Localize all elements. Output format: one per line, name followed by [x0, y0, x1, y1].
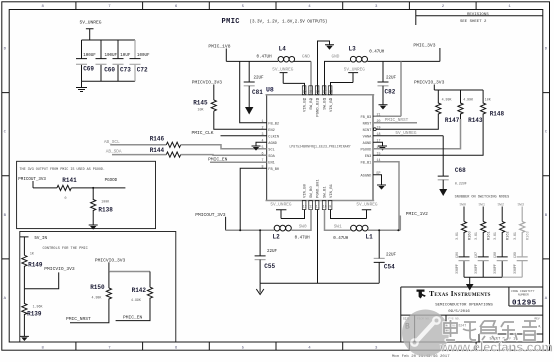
svg-text:SW3: SW3	[518, 204, 524, 208]
ground (R138)	[89, 213, 98, 230]
svg-text:2: 2	[442, 5, 445, 9]
op-amp U8 PMIC body	[266, 87, 375, 201]
resistor R138 100K	[91, 187, 114, 214]
ground arrow (power rail, open)	[256, 283, 264, 294]
svg-text:L1: L1	[366, 233, 374, 240]
svg-text:21: 21	[377, 112, 381, 116]
svg-text:26: 26	[316, 90, 320, 94]
svg-text:25: 25	[309, 90, 313, 94]
TI logo	[417, 290, 426, 299]
svg-text:THE 3V3 OUTPUT FROM PMIC IS US: THE 3V3 OUTPUT FROM PMIC IS USED AS PGOO…	[20, 168, 105, 172]
svg-text:C54: C54	[384, 264, 395, 271]
svg-text:4.99K: 4.99K	[92, 296, 102, 300]
svg-text:9: 9	[329, 205, 331, 209]
svg-text:5V_UNREG: 5V_UNREG	[344, 68, 365, 73]
svg-text:100UF: 100UF	[105, 54, 118, 58]
svg-text:PMIC_NRST: PMIC_NRST	[66, 316, 91, 322]
net PGOOD / wire R141 to PGOOD	[71, 179, 125, 188]
svg-text:EN2: EN2	[268, 129, 274, 133]
svg-text:3.01: 3.01	[493, 232, 497, 240]
svg-text:5V_UNREG: 5V_UNREG	[270, 202, 291, 207]
svg-text:L3: L3	[349, 46, 357, 53]
svg-text:100K: 100K	[101, 200, 109, 204]
wire cap bank bottom rail	[82, 80, 136, 82]
net PMICVIO_3V3 (pullup pair)	[95, 257, 126, 271]
title block code identity	[511, 290, 537, 308]
svg-text:SEMICONDUCTOR OPERATIONS: SEMICONDUCTOR OPERATIONS	[435, 303, 493, 307]
svg-text:PMICVIO_3V3: PMICVIO_3V3	[414, 80, 445, 86]
power flag 5V_UNREG (VIN_B0)	[270, 202, 291, 218]
capacitor C69 100UF	[76, 40, 96, 81]
wire C54 to ground rail	[378, 262, 380, 283]
svg-text:0: 0	[65, 196, 67, 200]
svg-text:4.99K: 4.99K	[463, 98, 473, 102]
wire R146 to SCL pin 5	[181, 145, 267, 149]
wire 5V_UNREG to VIN_B2	[283, 83, 304, 94]
power flag 5V_UNREG (VIN_B1)	[356, 202, 377, 218]
svg-text:330PF: 330PF	[513, 264, 517, 274]
svg-text:SW1: SW1	[479, 204, 485, 208]
U8 bottom pin stubs	[302, 201, 332, 210]
svg-text:www.elecfans.com: www.elecfans.com	[439, 340, 553, 355]
svg-text:12: 12	[309, 205, 313, 209]
resistor R147 4.99K	[436, 90, 460, 124]
svg-text:CONTROLS FOR THE PMIC: CONTROLS FOR THE PMIC	[43, 247, 88, 251]
svg-text:PMICVIO_3V3: PMICVIO_3V3	[192, 80, 223, 86]
svg-text:22UF: 22UF	[254, 77, 265, 81]
svg-text:22UF: 22UF	[386, 254, 397, 258]
U8 top pin numbers inner row	[303, 98, 333, 101]
net label GND (left)	[302, 55, 310, 60]
svg-text:1.96K: 1.96K	[33, 305, 43, 309]
svg-text:10K: 10K	[198, 108, 204, 112]
net SW1 / snubber branch 2 stub	[479, 204, 485, 222]
net label SW0 / wire L2 to SW_B0	[291, 210, 311, 231]
svg-text:PMIC_1V2: PMIC_1V2	[406, 211, 428, 217]
svg-text:CLKIN: CLKIN	[268, 135, 279, 139]
svg-text:FB_B1: FB_B1	[361, 161, 372, 165]
svg-text:5: 5	[242, 5, 245, 9]
power flag 5V_UNREG (VIN_B3)	[344, 68, 365, 83]
capacitor C81 22UF	[244, 61, 264, 95]
net PMIC_1V2	[397, 211, 428, 232]
resistor R148 10K	[481, 90, 505, 119]
power flag 5V_UNREG (VIN_B2)	[272, 68, 293, 84]
svg-text:SDA: SDA	[268, 155, 275, 159]
resistor R149 1K	[22, 252, 43, 269]
svg-text:5V_IN: 5V_IN	[34, 237, 47, 241]
svg-text:SW_B0: SW_B0	[310, 186, 314, 198]
svg-text:22UF: 22UF	[386, 77, 397, 81]
border zone numbers top	[42, 5, 512, 9]
svg-text:VIN_B3: VIN_B3	[330, 97, 334, 112]
svg-text:C89: C89	[513, 252, 517, 258]
svg-text:A: A	[4, 297, 7, 301]
border row letters	[4, 48, 548, 302]
svg-text:Texas Instruments: Texas Instruments	[429, 289, 491, 298]
net PMICOUT_3V3 (buck0 output)	[195, 212, 226, 231]
svg-text:U8: U8	[266, 87, 274, 94]
resistor R160 3.01	[455, 222, 473, 257]
svg-text:28: 28	[329, 90, 333, 94]
svg-text:1: 1	[508, 5, 511, 9]
wire 5V_UNREG to VIN_B0	[281, 210, 305, 219]
svg-text:330PF: 330PF	[455, 264, 459, 274]
svg-text:C60: C60	[104, 67, 115, 74]
svg-text:PGOOD: PGOOD	[361, 148, 372, 152]
svg-text:C: C	[545, 131, 548, 135]
svg-text:REVISIONS: REVISIONS	[467, 13, 489, 17]
svg-text:LP87524BRNFRQ1_EE23_PRELIMINAR: LP87524BRNFRQ1_EE23_PRELIMINARY	[289, 144, 350, 148]
net AB_SDA	[106, 150, 122, 155]
wire to R141	[33, 187, 57, 189]
svg-text:0.47UH: 0.47UH	[333, 237, 349, 241]
ground (top center)	[318, 41, 335, 94]
net PMICVIO_3V3 (pull-up rail)	[414, 80, 445, 91]
svg-text:0.47UH: 0.47UH	[295, 236, 311, 240]
wire AB_SDA to R144	[112, 154, 166, 156]
net PMICVIO_3V3 (R145)	[192, 80, 223, 101]
svg-text:5V_UNREG: 5V_UNREG	[80, 20, 102, 26]
svg-text:SEE SHEET 2: SEE SHEET 2	[460, 20, 487, 24]
svg-text:C86: C86	[455, 252, 459, 258]
wire R144 to SDA pin 6	[181, 154, 267, 157]
svg-text:SW2: SW2	[498, 204, 504, 208]
net SW0 / snubber branch 1 stub	[460, 204, 466, 222]
wire pull-up rail	[434, 89, 483, 91]
svg-text:5V_UNREG: 5V_UNREG	[356, 202, 377, 207]
svg-text:R144: R144	[150, 147, 165, 154]
svg-text:11: 11	[316, 205, 320, 209]
wire cap bank top rail	[82, 39, 136, 41]
svg-text:PMICVIO_3V3: PMICVIO_3V3	[44, 266, 75, 272]
net label GND (right)	[332, 55, 340, 60]
U8 top pin numbers	[303, 90, 333, 94]
wire power ground rail	[260, 282, 379, 284]
net PMIC_NRST (NRST pin 20)	[373, 118, 417, 123]
svg-text:R142: R142	[132, 287, 147, 294]
svg-text:NRST: NRST	[363, 122, 372, 126]
watermark chinese characters	[444, 320, 537, 340]
wire FB_B0 pin 8 to PMICOUT rail	[240, 168, 267, 230]
svg-text:B: B	[545, 214, 548, 218]
U8 right pin numbers	[377, 112, 381, 174]
svg-text:R149: R149	[28, 262, 43, 269]
ground arrow (C68)	[439, 180, 447, 196]
capacitor C88 330PF	[493, 252, 508, 277]
svg-text:C87: C87	[474, 252, 478, 258]
ground (AGND pin 17)	[373, 142, 387, 150]
wire R145 to EN2 pin 2	[214, 111, 267, 129]
svg-text:3.01: 3.01	[474, 232, 478, 240]
ground (AGND pin 4)	[252, 142, 267, 150]
svg-text:VIN_B0: VIN_B0	[304, 183, 308, 198]
svg-text:R148: R148	[490, 111, 505, 118]
svg-text:SW0: SW0	[299, 224, 307, 229]
wire C55 to ground rail	[259, 260, 261, 284]
svg-text:C55: C55	[264, 263, 275, 270]
wire FB_B1 pin 14 riser to PMIC_1V2 rail	[373, 162, 399, 231]
svg-text:R141: R141	[62, 177, 77, 184]
svg-text:7: 7	[108, 5, 111, 9]
svg-text:PMICOUT_3V3: PMICOUT_3V3	[18, 178, 46, 182]
svg-text:3.01: 3.01	[513, 232, 517, 240]
net PMIC_EN (R142)	[116, 300, 150, 321]
svg-text:SW1: SW1	[334, 224, 342, 229]
svg-text:10: 10	[323, 205, 327, 209]
svg-text:0.47UH: 0.47UH	[257, 56, 273, 60]
svg-text:VIN_B2: VIN_B2	[304, 97, 308, 112]
svg-text:SW_B3: SW_B3	[324, 97, 328, 109]
svg-text:(3.3V, 1.2V, 1.8V,2.5V OUTPUTS: (3.3V, 1.2V, 1.8V,2.5V OUTPUTS)	[250, 20, 328, 25]
resistor R144	[150, 147, 181, 157]
capacitor C54 22UF	[374, 229, 397, 270]
plot timestamp	[392, 354, 450, 359]
wire PGND_B01 to ground rail	[317, 210, 319, 284]
svg-text:C68: C68	[455, 167, 466, 174]
svg-text:FB_B3: FB_B3	[361, 116, 372, 120]
title block TEXAS INSTRUMENTS	[429, 289, 493, 314]
svg-text:3: 3	[375, 5, 378, 9]
svg-text:R138: R138	[98, 207, 113, 214]
net PMIC_NRST (R150)	[66, 301, 109, 323]
svg-text:PGND_B01: PGND_B01	[317, 179, 321, 198]
U8 left pin names	[268, 122, 279, 171]
inductor L1 0.47UH	[333, 225, 373, 241]
svg-text:1: 1	[262, 119, 264, 123]
svg-text:PGOOD: PGOOD	[105, 179, 118, 183]
inductor L4 0.47UH	[257, 46, 295, 62]
svg-text:AGND: AGND	[363, 142, 372, 146]
wire snubber ground rail	[464, 276, 522, 278]
wire NINT pin 19 to R147	[373, 119, 438, 131]
title block frame	[401, 287, 543, 342]
svg-text:1K: 1K	[30, 252, 34, 256]
svg-text:6: 6	[175, 5, 178, 9]
svg-text:GND: GND	[302, 55, 310, 60]
wire L4 to SW_B2	[294, 61, 311, 94]
svg-text:PMIC_EN: PMIC_EN	[123, 314, 143, 320]
svg-text:R160: R160	[468, 231, 472, 240]
capacitor C86 330PF	[455, 252, 470, 277]
svg-text:CODE IDENTITY: CODE IDENTITY	[511, 290, 535, 293]
ground (R139)	[20, 316, 29, 341]
svg-text:R150: R150	[90, 284, 105, 291]
resistor R143 4.99K	[458, 90, 483, 124]
svg-text:AGND: AGND	[268, 142, 277, 146]
svg-text:7: 7	[262, 158, 264, 162]
net SW3 / snubber branch 4 stub	[518, 204, 524, 222]
svg-text:R162: R162	[507, 231, 511, 240]
svg-text:C81: C81	[252, 89, 263, 96]
svg-text:PMIC_1V8: PMIC_1V8	[208, 44, 230, 50]
svg-text:VIN_B1: VIN_B1	[330, 183, 334, 198]
svg-text:C72: C72	[137, 67, 148, 74]
ground arrow (C81)	[245, 86, 253, 115]
svg-text:100UF: 100UF	[83, 54, 96, 58]
svg-text:01295: 01295	[512, 299, 537, 307]
resistor R161 3.01	[474, 222, 492, 257]
net SW2 / snubber branch 3 stub	[498, 204, 504, 222]
U8 left pin numbers	[262, 119, 264, 169]
svg-text:22UF: 22UF	[267, 250, 278, 254]
svg-text:C: C	[4, 131, 7, 135]
svg-text:3.01: 3.01	[455, 232, 459, 240]
net 5V_UNREG (VANA pin 18)	[373, 131, 443, 136]
U8 right pin names	[361, 116, 373, 178]
wire 5V_UNREG to VIN_B1	[331, 210, 367, 219]
svg-text:NINT: NINT	[363, 129, 372, 133]
svg-text:SCL: SCL	[268, 148, 274, 152]
title block size/drawing row	[403, 317, 541, 341]
border zone numbers bottom	[42, 347, 512, 351]
svg-text:0.47UH: 0.47UH	[369, 51, 385, 55]
svg-text:24: 24	[303, 90, 307, 94]
net AB_SCL	[104, 140, 120, 145]
capacitor C73 10UF	[113, 40, 132, 81]
svg-text:PMIC_3V3: PMIC_3V3	[413, 43, 435, 49]
wire FB_B3 sense riser to PMIC_3V3 rail	[373, 61, 401, 116]
ground arrow (snubber)	[466, 277, 474, 290]
svg-text:R161: R161	[488, 231, 492, 240]
wire EN3 pin 15 to R148	[373, 119, 483, 155]
svg-text:L4: L4	[279, 46, 287, 53]
svg-text:R145: R145	[193, 100, 208, 107]
capacitor C89 330PF	[513, 252, 528, 277]
svg-text:R146: R146	[150, 135, 165, 142]
svg-text:D: D	[4, 48, 7, 52]
svg-text:09/5/2016: 09/5/2016	[448, 309, 470, 314]
svg-text:13: 13	[303, 205, 307, 209]
wire L3 to PMIC_3V3	[367, 60, 440, 62]
wire pullup pair tee	[109, 272, 150, 289]
wire SW_B3 to L3	[325, 61, 351, 94]
svg-text:330PF: 330PF	[493, 264, 497, 274]
svg-text:NUMBER: NUMBER	[518, 294, 529, 297]
capacitor C60 100UF	[96, 40, 118, 81]
svg-text:L2: L2	[273, 233, 281, 240]
svg-text:SW_B2: SW_B2	[310, 97, 314, 109]
svg-text:PMICOUT_3V3: PMICOUT_3V3	[195, 212, 226, 218]
svg-text:27: 27	[323, 90, 327, 94]
net PMIC_CLK to CLKIN pin 3	[192, 130, 267, 136]
svg-text:R139: R139	[27, 311, 42, 318]
svg-text:330PF: 330PF	[474, 264, 478, 274]
svg-text:ASGND: ASGND	[361, 174, 372, 178]
svg-text:PMIC_EN: PMIC_EN	[208, 156, 228, 162]
svg-text:4.99K: 4.99K	[131, 298, 141, 302]
net PMIC_3V3	[413, 43, 440, 62]
svg-text:C88: C88	[493, 252, 497, 258]
U8 bottom pin names (vertical)	[304, 179, 335, 198]
capacitor C72 100UF	[130, 40, 151, 81]
svg-text:PGND_B23: PGND_B23	[317, 97, 321, 116]
svg-text:SW0: SW0	[460, 204, 466, 208]
ground (ASGND EP)	[373, 175, 386, 190]
svg-text:R163: R163	[527, 231, 531, 240]
resistor R150 4.99K	[90, 284, 111, 301]
net PMICVIO_3V3 (divider tap)	[24, 266, 74, 289]
svg-text:SNUBBER ON SWITCHING NODES: SNUBBER ON SWITCHING NODES	[455, 195, 510, 199]
note box CONTROLS	[20, 232, 176, 343]
net PMIC_1V8	[208, 44, 230, 62]
resistor R145 10K	[193, 100, 216, 112]
resistor R139 1.96K	[22, 289, 43, 318]
svg-text:R143: R143	[468, 117, 483, 124]
U8 bottom pin numbers	[303, 205, 332, 209]
resistor R162 3.01	[493, 222, 511, 257]
ground (C82)	[379, 86, 388, 110]
capacitor C55 22UF	[255, 229, 278, 270]
revisions table	[416, 10, 543, 26]
sheet title PMIC	[222, 18, 328, 26]
U8 top pin stubs	[302, 86, 332, 95]
svg-text:10K: 10K	[485, 98, 491, 102]
svg-text:4: 4	[308, 5, 311, 9]
svg-text:C82: C82	[385, 89, 396, 96]
svg-text:D: D	[545, 48, 548, 52]
svg-text:0.22UF: 0.22UF	[455, 182, 467, 186]
watermark www.elecfans.com	[439, 340, 553, 355]
wire AB_SCL to R146	[110, 144, 166, 146]
svg-text:100UF: 100UF	[137, 54, 150, 58]
svg-text:FB_B2: FB_B2	[268, 122, 279, 126]
wire 5V_UNREG to VIN_B3	[331, 83, 354, 95]
watermark logo circle	[402, 310, 449, 357]
svg-text:PMIC_CLK: PMIC_CLK	[192, 130, 214, 136]
svg-text:A: A	[545, 297, 548, 301]
wire FB_B2 sense from PMIC_1V8 rail to pin 1	[240, 61, 267, 122]
resistor R141 0	[57, 177, 77, 200]
net PMIC_EN to EN1 pin 7	[208, 156, 267, 162]
svg-text:PMICVIO_3V3: PMICVIO_3V3	[95, 257, 126, 263]
capacitor C87 330PF	[474, 252, 489, 277]
ground (earth) cap bank	[76, 81, 87, 91]
svg-text:C73: C73	[120, 67, 131, 74]
wire PGOOD pin 16 to R143	[373, 119, 461, 149]
svg-text:EN1: EN1	[268, 161, 274, 165]
svg-text:5V_UNREG: 5V_UNREG	[272, 68, 293, 73]
resistor R142 4.99K	[131, 287, 153, 302]
resistor R163 3.01	[513, 222, 531, 257]
wire L2 output rail	[226, 229, 275, 231]
note box PGOOD	[17, 161, 156, 228]
snubber section title	[455, 195, 510, 199]
svg-text:4.99K: 4.99K	[442, 98, 452, 102]
wire L1 output rail	[368, 229, 400, 231]
net PMICOUT_3V3 (pgood divider)	[18, 178, 46, 188]
svg-text:SW_B1: SW_B1	[324, 186, 328, 198]
power flag 5V_IN	[20, 237, 48, 256]
svg-text:EN3: EN3	[365, 155, 371, 159]
inductor L3 0.47UH	[349, 46, 385, 63]
svg-text:8: 8	[42, 5, 45, 9]
capacitor C68 0.22UF	[438, 136, 467, 186]
capacitor C82 22UF	[378, 61, 397, 95]
resistor R146	[150, 135, 181, 147]
svg-text:C69: C69	[83, 66, 94, 73]
U8 top pin names (vertical)	[304, 97, 335, 116]
svg-text:FB_B0: FB_B0	[268, 168, 279, 172]
svg-text:B: B	[4, 214, 7, 218]
svg-text:10UF: 10UF	[120, 54, 131, 58]
svg-text:R147: R147	[445, 117, 460, 124]
net label SW1 / wire SW_B1 to L1	[325, 210, 351, 231]
svg-text:VANA: VANA	[363, 135, 372, 139]
svg-text:PMIC: PMIC	[222, 18, 240, 26]
svg-text:GND: GND	[332, 55, 340, 60]
inductor L2 0.47UH	[273, 225, 311, 240]
